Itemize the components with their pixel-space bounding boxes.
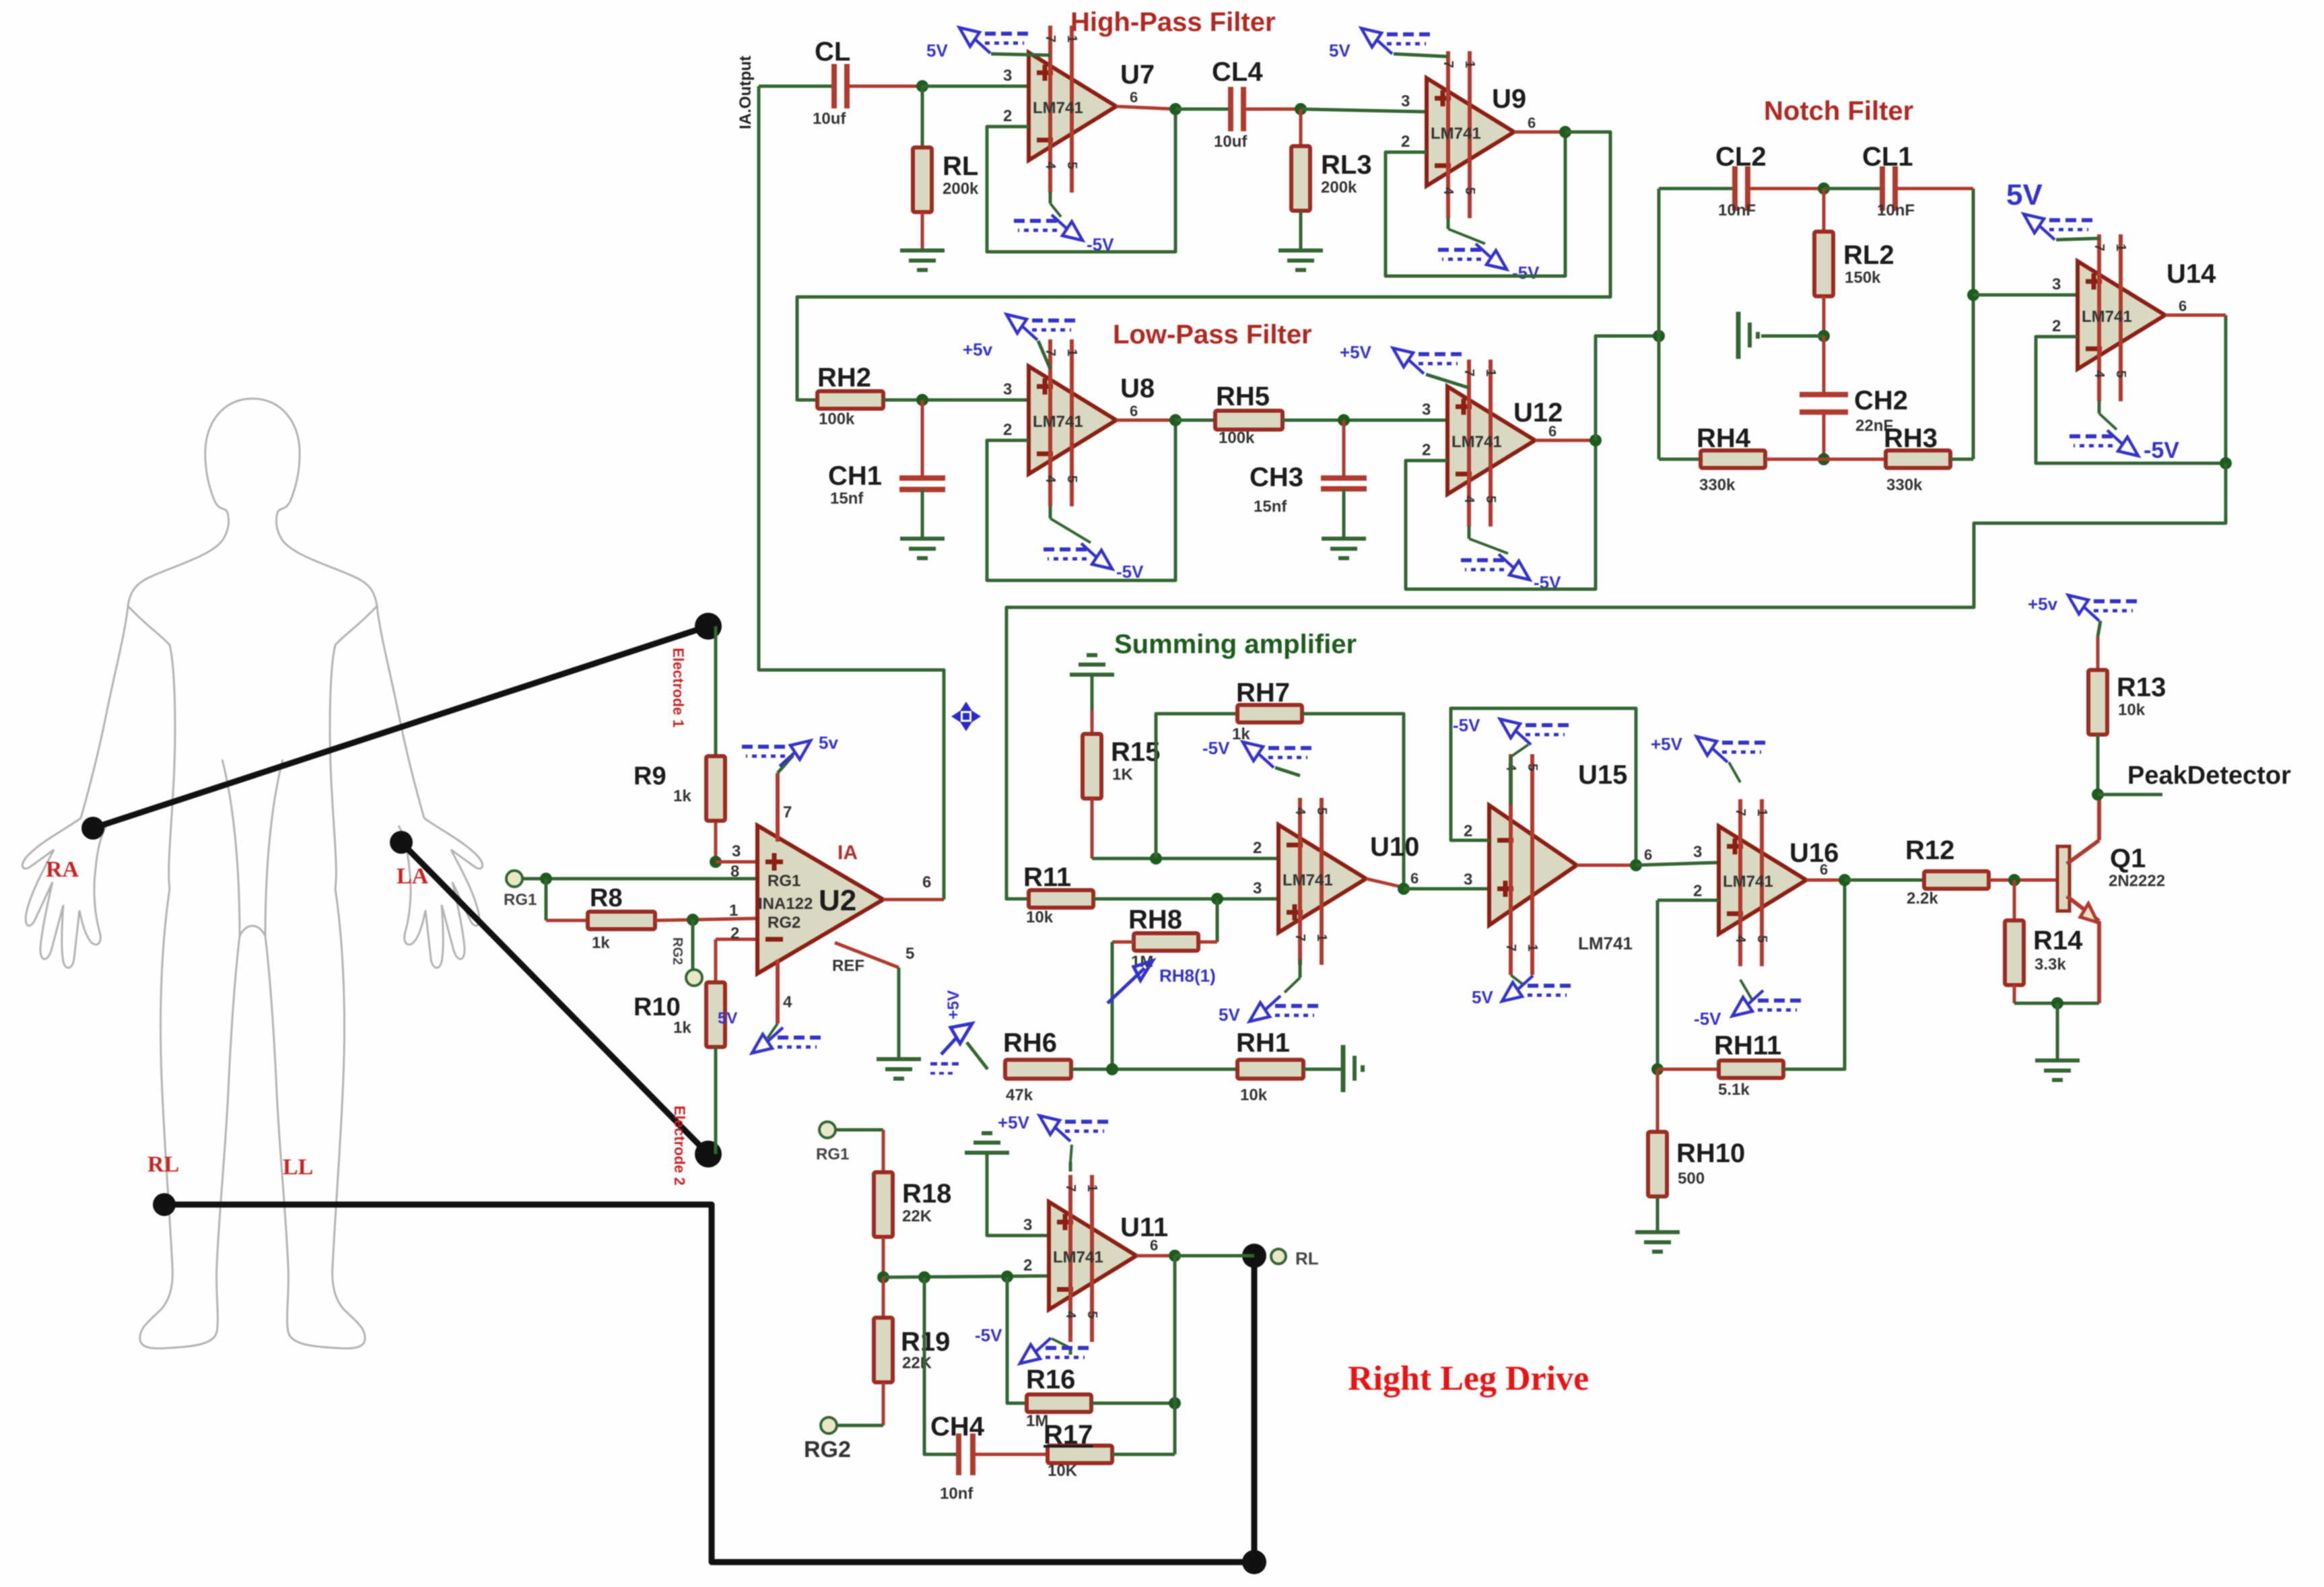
svg-text:RH8: RH8 [1128, 905, 1182, 935]
svg-text:5: 5 [1064, 162, 1079, 169]
wire node to RG2 terminal [691, 920, 695, 970]
svg-text:RH4: RH4 [1697, 424, 1751, 453]
svg-text:CH2: CH2 [1854, 386, 1908, 415]
node RL2/CH2 [1818, 330, 1830, 342]
svg-text:2: 2 [1253, 839, 1262, 857]
node RH4/RH3 [1818, 453, 1830, 465]
node R11/RH8 [1211, 893, 1223, 905]
svg-text:U8: U8 [1120, 374, 1155, 403]
wire RH8 to RH6 node [1112, 941, 1134, 944]
feedback wire U14 [2036, 315, 2226, 463]
wire RG1 node down to R8 [545, 879, 548, 920]
svg-text:1K: 1K [1112, 766, 1133, 784]
wire U12 output [1535, 439, 1596, 442]
svg-text:15nf: 15nf [830, 489, 864, 508]
wire U9 output [1514, 131, 1565, 134]
svg-text:RG2: RG2 [767, 914, 800, 932]
svg-text:R16: R16 [1026, 1365, 1075, 1394]
svg-text:5V: 5V [718, 1009, 737, 1027]
svg-text:R8: R8 [590, 884, 623, 912]
svg-text:4: 4 [1293, 807, 1307, 815]
wire U7 output [1116, 106, 1175, 109]
svg-text:10uf: 10uf [813, 110, 846, 128]
wire CH4 to R17 [973, 1453, 1048, 1456]
resistor RL [921, 86, 924, 147]
svg-text:6: 6 [1820, 861, 1828, 878]
power 5V at U2 pin7 [778, 755, 793, 773]
svg-text:2: 2 [1003, 421, 1012, 439]
svg-text:6: 6 [1130, 89, 1138, 106]
svg-text:8: 8 [730, 863, 739, 881]
svg-text:10k: 10k [2118, 701, 2146, 719]
svg-text:-5V: -5V [1694, 1009, 1721, 1029]
wire CH3 to ground [1342, 489, 1346, 539]
op-amp U9 [1427, 78, 1514, 186]
wire CH1 to ground [921, 489, 924, 539]
svg-text:RH8(1): RH8(1) [1159, 966, 1216, 986]
svg-text:100k: 100k [819, 410, 855, 428]
svg-text:6: 6 [1528, 114, 1536, 131]
wire node to U11 output [1173, 1256, 1177, 1403]
power 5V at U9 [1394, 54, 1448, 57]
terminal RG1 (right leg drive) [819, 1122, 835, 1138]
svg-text:U14: U14 [2166, 259, 2216, 289]
resistor RH4 [1659, 458, 1701, 461]
svg-text:1: 1 [1085, 1184, 1099, 1192]
power 5V at U10 bottom [1299, 959, 1302, 978]
svg-text:1: 1 [1314, 934, 1329, 941]
svg-text:U15: U15 [1578, 760, 1627, 790]
svg-text:RH1: RH1 [1236, 1028, 1290, 1058]
terminal RG2 [837, 1424, 883, 1427]
svg-text:RH11: RH11 [1714, 1031, 1781, 1060]
svg-text:2: 2 [1422, 441, 1431, 459]
svg-text:5V: 5V [2006, 178, 2043, 211]
wire RH1 to battery [1303, 1068, 1343, 1071]
ground RH10 [1635, 1230, 1680, 1234]
terminal RL [1271, 1249, 1286, 1264]
svg-text:LM741: LM741 [1723, 873, 1773, 891]
svg-text:2N2222: 2N2222 [2109, 872, 2165, 890]
svg-text:200k: 200k [1321, 178, 1357, 197]
svg-text:Low-Pass Filter: Low-Pass Filter [1113, 320, 1312, 349]
svg-text:Electrode 2: Electrode 2 [671, 1106, 688, 1186]
ground REF [877, 1057, 921, 1061]
svg-text:6: 6 [1130, 403, 1138, 419]
ground CH1 [900, 537, 945, 541]
svg-text:2.2k: 2.2k [1907, 889, 1938, 908]
svg-text:R17: R17 [1044, 1420, 1093, 1450]
node U14 pin3 junction [1967, 289, 1979, 301]
svg-text:1k: 1k [592, 934, 610, 952]
resistor RH10 [1656, 1069, 1660, 1132]
svg-text:7: 7 [1063, 1184, 1078, 1192]
svg-text:2: 2 [730, 924, 739, 943]
svg-text:3: 3 [732, 842, 741, 860]
svg-text:Electrode 1: Electrode 1 [670, 648, 687, 728]
resistor RH11 [1657, 1068, 1719, 1071]
node Electrode1 [695, 613, 722, 640]
svg-text:5: 5 [1085, 1311, 1099, 1318]
wire U14 output [2165, 314, 2226, 317]
wire RL electrode to right-leg-drive output [164, 1205, 1254, 1562]
svg-text:10K: 10K [1048, 1462, 1078, 1480]
feedback wire U7 [987, 109, 1175, 252]
svg-text:RG1: RG1 [767, 872, 800, 890]
op-amp U15 [1489, 805, 1577, 925]
node U12 output [1590, 434, 1602, 446]
svg-text:5: 5 [1525, 764, 1540, 771]
svg-text:1: 1 [1462, 61, 1477, 68]
wire U9 output to low-pass input [797, 132, 1610, 400]
feedback wire U12 [1406, 440, 1596, 589]
svg-text:+5V: +5V [998, 1112, 1030, 1133]
node RH11 left [1651, 1063, 1664, 1075]
svg-text:3: 3 [1464, 871, 1472, 889]
wire node row to U11 pin2 [883, 1276, 1049, 1277]
node Electrode2 [695, 1141, 722, 1168]
svg-text:200k: 200k [943, 180, 979, 198]
svg-text:RH6: RH6 [1003, 1028, 1057, 1058]
wire RH8 riser [1216, 899, 1219, 942]
wire to ground [2056, 1003, 2059, 1060]
resistor RH1 [1237, 1060, 1303, 1079]
svg-text:3: 3 [1253, 879, 1262, 898]
svg-text:6: 6 [1548, 423, 1557, 440]
svg-text:7: 7 [1462, 369, 1476, 376]
svg-text:7: 7 [783, 803, 792, 821]
node RH2/CH1 [916, 394, 928, 406]
svg-text:IA.Output: IA.Output [737, 56, 755, 129]
wire U8 output [1116, 419, 1175, 422]
resistor R8 [588, 912, 655, 929]
resistor R11 [1029, 890, 1093, 908]
power +5V feeding RH6 [951, 1023, 972, 1044]
capacitor CL [831, 64, 837, 108]
svg-text:U9: U9 [1492, 84, 1526, 114]
node U2 pin3 [710, 856, 722, 868]
pin 7 rail U2 [776, 773, 780, 842]
capacitor CL1 [1824, 187, 1882, 191]
svg-text:RG1: RG1 [816, 1145, 849, 1163]
node RG1 junction [540, 873, 552, 885]
ground CH3 [1322, 537, 1366, 541]
svg-text:+5V: +5V [945, 990, 963, 1019]
svg-text:LL: LL [283, 1155, 313, 1180]
svg-text:2: 2 [2052, 317, 2061, 335]
wire RH11 to U16 output [1783, 880, 1845, 1069]
resistor R12 [1845, 879, 1924, 882]
wire RG1 to R18 [835, 1128, 883, 1132]
svg-text:R15: R15 [1111, 737, 1160, 767]
wire to U14 pin3 [1973, 294, 2078, 297]
svg-text:LM741: LM741 [1578, 933, 1633, 953]
power 5V at U15 bottom [1511, 975, 1523, 984]
wire U10 output [1366, 879, 1404, 887]
svg-text:5: 5 [1754, 935, 1769, 943]
svg-text:7: 7 [1503, 944, 1518, 951]
wire R17 to node [1112, 1453, 1175, 1456]
op-amp U10 [1278, 825, 1366, 933]
node CL2/CL1/RL2 [1818, 182, 1830, 195]
wire R18 to node [882, 1237, 885, 1277]
svg-text:5: 5 [1483, 496, 1498, 503]
node U10 output [1398, 883, 1410, 895]
svg-text:1k: 1k [673, 787, 691, 805]
wire U16 pin2 [1657, 899, 1719, 902]
svg-text:3.3k: 3.3k [2035, 955, 2066, 974]
svg-text:U16: U16 [1789, 838, 1839, 868]
wire R12 to Q1 base [1989, 879, 2057, 882]
svg-text:LM741: LM741 [1283, 871, 1333, 889]
feedback wire U8 [987, 420, 1175, 580]
svg-text:-5V: -5V [975, 1325, 1002, 1345]
node U7 output [1169, 103, 1182, 115]
node U15 output [1630, 859, 1642, 871]
power -5V at U7 [1049, 192, 1052, 203]
node R16/R17 [1169, 1397, 1181, 1409]
svg-text:-5V: -5V [1453, 715, 1480, 735]
wire PeakDetector stub [2098, 793, 2162, 797]
svg-text:10k: 10k [1026, 908, 1054, 926]
svg-text:LM741: LM741 [1033, 99, 1083, 117]
svg-text:LM741: LM741 [1431, 125, 1481, 143]
svg-text:CH3: CH3 [1250, 463, 1303, 492]
svg-text:RH3: RH3 [1884, 424, 1938, 453]
wire U16 output [1806, 879, 1845, 882]
node CL4/RL3 [1295, 103, 1307, 115]
svg-text:2: 2 [1464, 822, 1472, 840]
svg-text:5: 5 [1064, 475, 1079, 483]
svg-text:5: 5 [905, 945, 914, 963]
svg-text:1: 1 [729, 902, 738, 920]
resistor R14 [2013, 880, 2016, 920]
svg-text:CL1: CL1 [1862, 142, 1913, 172]
svg-text:RL: RL [943, 151, 978, 181]
wire U15 to U16 pin3 [1636, 863, 1719, 865]
wire R8 to U2 pin1 [655, 918, 757, 920]
ground above U11 (inverted) [965, 1151, 1009, 1155]
node RH6/RH8 [1106, 1063, 1118, 1075]
resistor RH6 [1005, 1060, 1071, 1079]
svg-text:CH4: CH4 [930, 1412, 985, 1442]
pin 5 REF lead [835, 943, 899, 968]
svg-text:5: 5 [2113, 370, 2128, 378]
node emitter/R14 [2051, 997, 2063, 1009]
ground RL [900, 248, 945, 252]
svg-text:R11: R11 [1023, 863, 1071, 892]
wire R10 to Electrode2 [714, 1047, 718, 1154]
resistor R9 [714, 818, 718, 862]
ground Q1 [2035, 1058, 2080, 1062]
svg-text:PeakDetector: PeakDetector [2127, 762, 2291, 790]
svg-text:47k: 47k [1006, 1086, 1033, 1104]
svg-text:RA: RA [46, 857, 79, 882]
svg-text:10nf: 10nf [940, 1485, 973, 1503]
wire RH6 to node [1071, 1068, 1237, 1071]
capacitor CL4 [1228, 87, 1233, 131]
power -5V at U10 top [1275, 768, 1300, 776]
feedback RH7 wire [1156, 714, 1237, 858]
svg-text:RG2: RG2 [804, 1437, 851, 1462]
node U11 output [1169, 1250, 1181, 1262]
svg-text:100k: 100k [1219, 429, 1255, 447]
svg-text:4: 4 [1441, 187, 1456, 195]
svg-text:10uf: 10uf [1214, 133, 1248, 151]
op-amp U8 [1029, 366, 1116, 474]
power -5V at U15 top [1511, 745, 1528, 757]
op-amp U7 [1029, 53, 1116, 160]
svg-text:6: 6 [922, 873, 931, 891]
wire R16 to node [1091, 1402, 1175, 1405]
svg-text:4: 4 [1063, 1311, 1078, 1319]
power -5V at U2 pin4 [752, 1034, 772, 1053]
svg-text:6: 6 [1644, 846, 1652, 863]
capacitor CH1 [921, 400, 924, 478]
power +5V at R13 [2068, 595, 2088, 614]
svg-text:Notch Filter: Notch Filter [1764, 96, 1913, 126]
transistor Q1 2N2222 [2057, 846, 2070, 911]
svg-text:5V: 5V [926, 40, 948, 61]
node CH4 branch [1001, 1271, 1013, 1283]
svg-text:3: 3 [1401, 92, 1410, 110]
wire RA electrode to Electrode1 [93, 626, 708, 828]
resistor R17 [1048, 1446, 1112, 1463]
move icon [951, 702, 981, 731]
resistor RH8 [1134, 933, 1198, 951]
ground RL3 [1278, 248, 1323, 252]
wire RH2 to U8 [883, 399, 1029, 402]
svg-text:R18: R18 [902, 1179, 951, 1209]
svg-text:6: 6 [1410, 870, 1419, 887]
battery reference at RH1 [1341, 1045, 1346, 1092]
power -5V at U11 [1069, 1348, 1072, 1355]
wire CL4 to node [1243, 108, 1301, 111]
node U14 feedback [2220, 457, 2232, 469]
potentiometer arrow RH8(1) [1107, 968, 1144, 1003]
svg-text:U2: U2 [819, 884, 856, 917]
svg-text:1: 1 [1754, 809, 1769, 816]
node R16 branch [918, 1271, 930, 1283]
op-amp U16 [1719, 826, 1806, 934]
svg-text:330k: 330k [1886, 476, 1923, 494]
node U16 output [1839, 874, 1851, 886]
svg-text:-5V: -5V [1512, 263, 1540, 283]
wire ground to R15 [1091, 675, 1094, 710]
wire R15 to U10 pin2 [1091, 799, 1094, 858]
svg-text:2: 2 [1023, 1256, 1032, 1275]
svg-text:10k: 10k [1240, 1086, 1268, 1104]
svg-text:LM741: LM741 [2082, 308, 2132, 326]
wire U2 output riser to high-pass input [883, 898, 944, 902]
svg-text:15nf: 15nf [1254, 498, 1287, 516]
svg-text:R10: R10 [634, 993, 681, 1021]
svg-text:7: 7 [1733, 809, 1748, 816]
svg-text:-5V: -5V [2144, 438, 2179, 463]
svg-text:IA: IA [838, 842, 858, 864]
svg-text:2: 2 [1693, 882, 1702, 900]
svg-text:LM741: LM741 [1451, 433, 1502, 451]
wire emitter to ground row [2014, 1002, 2099, 1005]
feedback wire U15 [1451, 708, 1636, 865]
svg-text:RH5: RH5 [1216, 382, 1270, 411]
resistor RH2 [817, 391, 883, 409]
svg-text:-5V: -5V [1202, 738, 1230, 758]
svg-text:2: 2 [1401, 133, 1410, 151]
resistor R10 [716, 938, 757, 941]
svg-text:5.1k: 5.1k [1718, 1081, 1750, 1099]
node RH5/CH3 [1338, 414, 1350, 426]
svg-text:R13: R13 [2117, 673, 2166, 702]
wire RH7 to U10 output [1302, 714, 1404, 889]
wire CL to node [847, 85, 922, 88]
svg-text:1: 1 [1525, 944, 1540, 951]
svg-text:CL: CL [815, 37, 850, 67]
svg-text:LM741: LM741 [1033, 413, 1083, 431]
resistor R13 [2096, 636, 2100, 670]
svg-text:3: 3 [1003, 67, 1012, 85]
svg-text:7: 7 [1293, 934, 1307, 941]
pin 4 rail U2 [776, 959, 780, 1023]
wire U12 output to notch filter [1596, 336, 1659, 440]
svg-text:+5v: +5v [2028, 594, 2058, 614]
wire CH2 to bottom node [1822, 412, 1826, 459]
svg-text:1: 1 [1064, 349, 1079, 356]
svg-text:RG2: RG2 [670, 937, 685, 965]
power 5V at U7 [991, 54, 1050, 55]
svg-text:CL4: CL4 [1212, 57, 1263, 87]
svg-text:6: 6 [1150, 1237, 1158, 1254]
op-amp U14 [2078, 261, 2165, 369]
node PeakDetector [2092, 788, 2104, 801]
wire notch left vertical [1657, 189, 1661, 459]
power -5V at U14 [2098, 401, 2101, 413]
svg-text:+5V: +5V [1340, 342, 1372, 362]
svg-text:Summing amplifier: Summing amplifier [1114, 630, 1357, 659]
svg-text:5V: 5V [1219, 1005, 1240, 1025]
resistor R16 [1027, 1394, 1091, 1412]
wire to CL2 [1659, 187, 1735, 191]
op-amp U2 INA122 [757, 825, 883, 974]
wire LA electrode to Electrode2 [401, 842, 708, 1154]
svg-text:R14: R14 [2033, 926, 2083, 955]
feedback wire U9 [1386, 132, 1565, 276]
node R18/R19 [877, 1271, 889, 1283]
svg-text:500: 500 [1678, 1170, 1705, 1188]
node U8 output [1169, 414, 1182, 426]
svg-text:1: 1 [1483, 369, 1498, 376]
svg-text:10nF: 10nF [1718, 201, 1756, 220]
svg-text:2: 2 [1003, 107, 1012, 125]
resistor R19 [882, 1277, 885, 1318]
svg-text:RH10: RH10 [1676, 1139, 1745, 1168]
op-amp U11 [1049, 1202, 1136, 1310]
wire U10 to U15 pin3 [1404, 887, 1489, 891]
node RL output [1242, 1244, 1266, 1268]
svg-text:10nF: 10nF [1877, 201, 1915, 220]
svg-text:6: 6 [2179, 298, 2187, 314]
svg-text:+5V: +5V [1651, 734, 1683, 754]
wire U15 output [1577, 864, 1636, 867]
svg-text:7: 7 [1441, 61, 1456, 68]
svg-text:R12: R12 [1905, 836, 1954, 865]
human body silhouette [22, 399, 482, 1349]
svg-text:CH1: CH1 [828, 461, 882, 491]
node Q1 base [2008, 874, 2020, 886]
power +5V at U8 [1038, 341, 1050, 369]
svg-text:5: 5 [1314, 807, 1329, 815]
battery reference at notch [1736, 312, 1741, 359]
